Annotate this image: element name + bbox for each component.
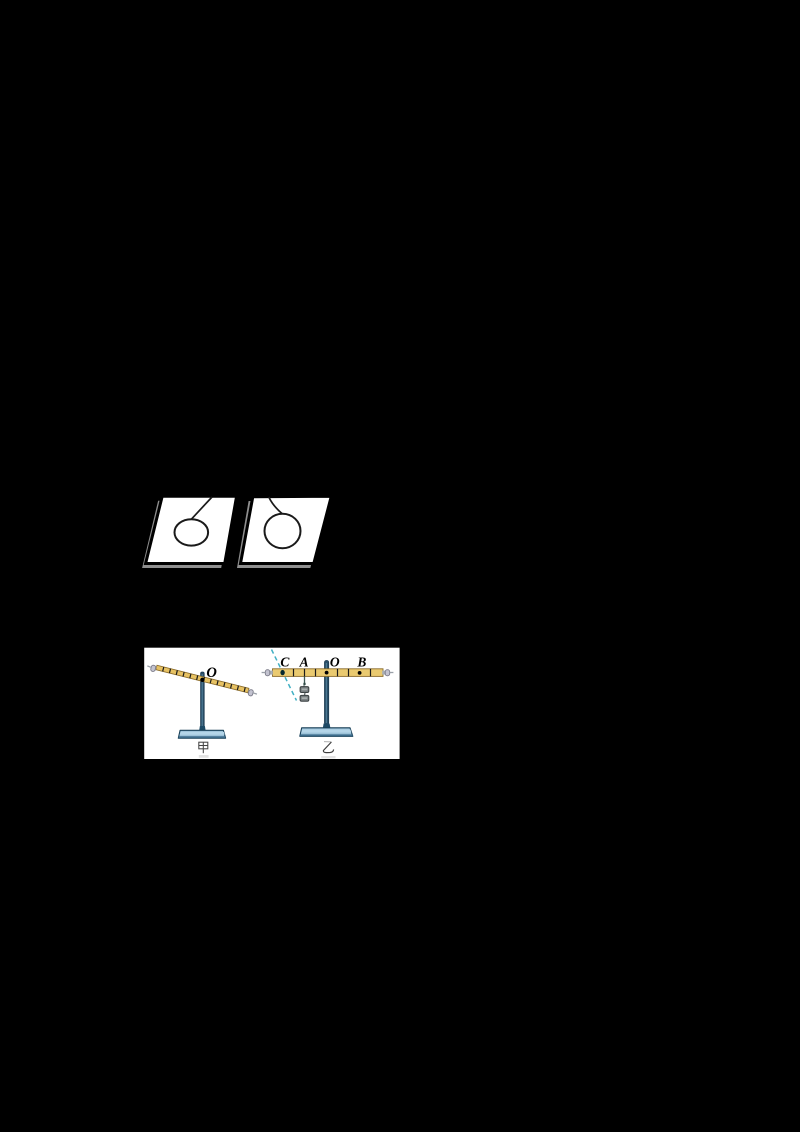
svg-text:C: C <box>280 655 290 670</box>
svg-text:O: O <box>206 665 217 681</box>
svg-text:A: A <box>299 655 309 670</box>
svg-text:O: O <box>330 655 340 670</box>
svg-text:B: B <box>356 655 366 670</box>
